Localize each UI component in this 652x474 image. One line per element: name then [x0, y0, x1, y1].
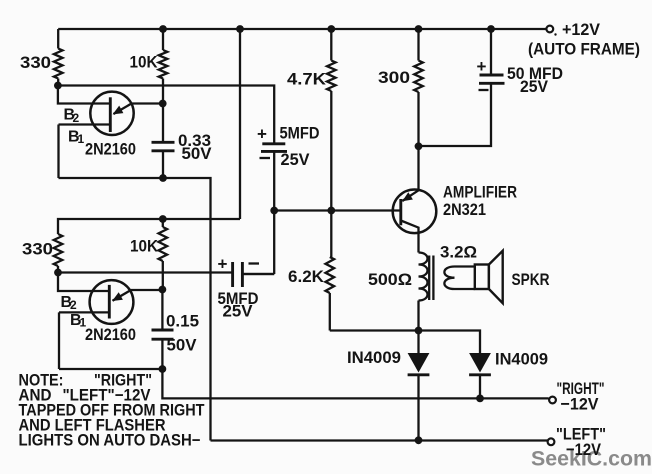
capacitor C4 5MFD 25V (horizontal coupling) [218, 255, 275, 321]
node base line junction C2 [270, 207, 278, 215]
svg-text:10K: 10K [130, 237, 159, 256]
svg-text:LIGHTS ON AUTO DASH−: LIGHTS ON AUTO DASH− [19, 432, 201, 450]
node emitter Q1 [159, 100, 167, 108]
svg-text:3.2Ω: 3.2Ω [440, 243, 477, 262]
svg-text:500Ω: 500Ω [368, 270, 412, 289]
svg-text:+: + [257, 125, 267, 144]
capacitor 0.33 50V [152, 104, 213, 179]
svg-text:50V: 50V [182, 144, 213, 163]
wire down to RIGHT -12V line [162, 369, 548, 398]
node D2 to RIGHT line [476, 395, 484, 403]
note text block [19, 372, 205, 450]
node B2 of Q1 / output line to C2 [58, 86, 274, 144]
terminal "RIGHT" -12V [549, 379, 604, 414]
svg-text:330: 330 [20, 53, 51, 72]
svg-text:2N321: 2N321 [443, 200, 486, 219]
svg-text:25V: 25V [520, 77, 549, 96]
node emitter supply junction [415, 142, 423, 150]
svg-text:0.15: 0.15 [166, 312, 199, 331]
terminal +12V [528, 20, 640, 59]
wire B1 Q1 output line [59, 178, 211, 441]
transistor Q2 2N2160 (UJT, lower oscillator) [58, 273, 162, 370]
node emitter Q2 [159, 286, 167, 294]
svg-text:5MFD: 5MFD [280, 124, 320, 143]
svg-text:2N2160: 2N2160 [85, 325, 136, 344]
resistor R3 330 (lower oscillator) [22, 234, 62, 273]
diode D2 1N4009 (right) [419, 331, 549, 399]
resistor R5 4.7K [287, 25, 336, 210]
transformer T1 core [429, 256, 433, 301]
svg-text:25V: 25V [223, 302, 254, 321]
svg-text:50V: 50V [167, 336, 198, 355]
transistor Q3 2N321 amplifier [393, 146, 517, 252]
svg-text:330: 330 [22, 240, 53, 259]
transformer T1 secondary 3.2 ohm [440, 243, 477, 290]
svg-text:2: 2 [73, 111, 80, 125]
svg-text:4.7K: 4.7K [287, 70, 327, 89]
svg-text:+: + [218, 255, 228, 274]
svg-text:300: 300 [378, 68, 410, 87]
speaker SPKR [475, 251, 550, 303]
svg-text:+12V: +12V [562, 20, 601, 39]
svg-text:IN4009: IN4009 [347, 348, 401, 367]
capacitor 0.15 50V [152, 290, 200, 370]
transformer T1 primary 500 ohm [368, 253, 428, 331]
wire B1 Q2 return line [59, 368, 162, 370]
capacitor C2 5MFD 25V (vertical coupling) [242, 124, 319, 275]
svg-text:1: 1 [78, 132, 85, 146]
resistor R6 6.2K [288, 207, 419, 331]
capacitor C5 50 MFD 25V [419, 25, 564, 146]
svg-text:−12V: −12V [566, 440, 602, 459]
svg-text:2N2160: 2N2160 [85, 140, 136, 159]
svg-text:SPKR: SPKR [512, 270, 550, 289]
terminal "LEFT" -12V [548, 425, 606, 460]
diode D1 1N4009 (left) [347, 331, 429, 441]
resistor R7 300 [378, 25, 423, 146]
wire +12V top rail [58, 28, 546, 30]
svg-text:2: 2 [70, 298, 77, 312]
resistor R4 10K (lower oscillator) [130, 215, 167, 289]
svg-text:+: + [477, 57, 487, 76]
svg-text:−12V: −12V [561, 395, 600, 414]
wire feed to lower oscillator rail [58, 29, 240, 234]
transistor Q1 2N2160 (UJT, top oscillator) [58, 86, 163, 179]
svg-text:6.2K: 6.2K [288, 267, 325, 286]
svg-text:10K: 10K [130, 53, 159, 72]
node B2 of Q2 / output line to C4 [58, 271, 233, 273]
svg-text:(AUTO FRAME): (AUTO FRAME) [528, 40, 640, 59]
wire LEFT -12V line [211, 439, 548, 441]
resistor R2 10K (top oscillator) [130, 25, 168, 103]
wire base line to amplifier [274, 209, 401, 211]
svg-text:IN4009: IN4009 [495, 350, 548, 369]
svg-text:AMPLIFIER: AMPLIFIER [443, 183, 517, 202]
resistor R1 330 (top oscillator) [20, 29, 63, 86]
node collector/diode junction [415, 327, 423, 335]
svg-text:25V: 25V [281, 150, 311, 169]
